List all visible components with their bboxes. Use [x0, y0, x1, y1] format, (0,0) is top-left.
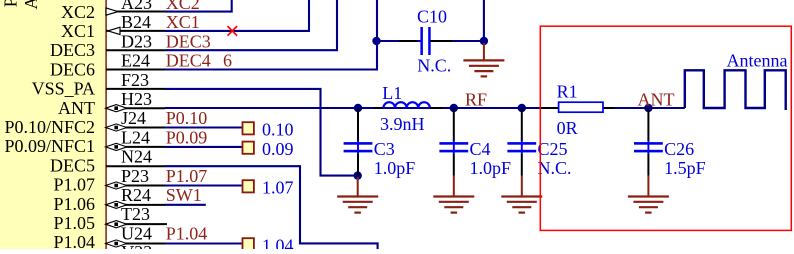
svg-text:E24: E24	[121, 51, 150, 71]
svg-text:ANT: ANT	[58, 98, 95, 118]
svg-text:B24: B24	[121, 12, 151, 32]
pin L24 bidirectional marker	[106, 143, 127, 150]
wire R1 output to antenna	[615, 107, 685, 109]
svg-text:C3: C3	[374, 139, 395, 159]
pin L24 (P0.09/NFC1) stub	[106, 146, 165, 148]
pin A23 (XC2) stub	[106, 11, 165, 13]
pin U24 (P1.04) stub	[106, 243, 165, 245]
svg-text:3.9nH: 3.9nH	[380, 114, 425, 134]
resistor R1	[540, 107, 559, 109]
svg-text:RF: RF	[465, 90, 487, 110]
svg-text:6: 6	[223, 51, 232, 71]
svg-text:N24: N24	[121, 147, 152, 167]
antenna symbol	[685, 70, 786, 110]
pin P23 (P1.07) stub	[106, 185, 165, 187]
svg-text:D23: D23	[121, 31, 152, 51]
ground below C25	[521, 176, 523, 197]
junction C10/gnd	[480, 37, 488, 45]
wire riser above C10 ground node	[483, 0, 485, 41]
wire ANT main RF line	[165, 107, 540, 109]
pin J24 bidirectional marker	[106, 124, 127, 131]
wire VSS_PA: F23 down to C3 bottom node	[165, 89, 358, 176]
wire P1.07 to port	[165, 184, 242, 186]
svg-text:DEC3: DEC3	[166, 31, 211, 51]
svg-text:P1.04: P1.04	[53, 232, 95, 249]
pin R24 (P1.06) stub	[106, 204, 165, 206]
svg-text:L24: L24	[121, 127, 150, 147]
svg-text:1.0pF: 1.0pF	[374, 158, 416, 178]
svg-text:P0.10/NFC2: P0.10/NFC2	[4, 117, 95, 137]
svg-text:C25: C25	[538, 139, 568, 159]
svg-text:DEC5: DEC5	[50, 155, 95, 175]
svg-text:V23: V23	[121, 242, 152, 249]
pin N24 (DEC5) stub	[106, 165, 165, 167]
IC U1 body (left block)	[0, 0, 105, 249]
pin E24 (DEC6) stub	[106, 69, 165, 71]
svg-text:P0.10: P0.10	[166, 108, 208, 128]
svg-text:A23: A23	[121, 0, 152, 13]
pin B24 input arrow	[108, 27, 120, 34]
svg-text:XC1: XC1	[166, 12, 200, 32]
svg-text:P0.09: P0.09	[166, 127, 208, 147]
junction C3	[354, 104, 362, 112]
pin H23 (ANT) stub	[106, 107, 165, 109]
wire XC2: A23 to vertical riser	[165, 0, 232, 12]
svg-text:N.C.: N.C.	[538, 158, 572, 178]
svg-text:Antenna: Antenna	[727, 51, 788, 71]
ground below C3	[357, 177, 359, 197]
pin R24 bidirectional marker	[106, 201, 127, 208]
svg-text:L1: L1	[382, 83, 402, 103]
pin J24 (P0.10/NFC2) stub	[106, 127, 165, 129]
pin U24 bidirectional marker	[106, 240, 127, 247]
wire C10 right to ground node	[451, 40, 484, 42]
pin T23 bidirectional marker	[106, 221, 127, 228]
svg-text:P1.07: P1.07	[53, 175, 95, 195]
svg-text:P1.06: P1.06	[53, 194, 95, 214]
junction ANT	[644, 104, 652, 112]
svg-text:P: P	[0, 0, 20, 7]
svg-text:0.10: 0.10	[262, 119, 294, 139]
capacitor C10	[399, 40, 421, 42]
svg-text:A: A	[21, 0, 41, 10]
port 0.09	[243, 142, 254, 154]
pin B24 (XC1) stub	[106, 30, 165, 32]
svg-text:U24: U24	[121, 223, 152, 243]
red highlight box around antenna matching	[540, 26, 791, 230]
wire P0.10 to port	[165, 126, 242, 128]
port 1.04	[243, 238, 254, 250]
capacitor C25	[521, 108, 523, 141]
svg-text:1.07: 1.07	[262, 177, 294, 197]
svg-text:1.04: 1.04	[262, 235, 294, 249]
wire DEC6: E24 to vertical riser through C10 node	[165, 0, 377, 70]
capacitor C26	[647, 108, 649, 141]
wire DEC3: D23 to vertical riser	[165, 0, 337, 50]
junction C10/DEC6	[372, 37, 380, 45]
svg-text:1.5pF: 1.5pF	[664, 158, 706, 178]
junction RF	[450, 104, 458, 112]
svg-text:C10: C10	[417, 7, 447, 27]
svg-text:P0.09/NFC1: P0.09/NFC1	[4, 136, 95, 156]
svg-text:J24: J24	[121, 108, 146, 128]
junction C3 bottom	[354, 171, 362, 179]
svg-text:0R: 0R	[557, 118, 578, 138]
ground below C4	[453, 176, 455, 197]
svg-text:DEC6: DEC6	[50, 59, 95, 79]
svg-text:T23: T23	[121, 204, 150, 224]
svg-text:SW1: SW1	[166, 185, 202, 205]
wire C10 left	[377, 40, 399, 42]
pin D23 (DEC3) stub	[106, 49, 165, 51]
svg-text:P1.07: P1.07	[166, 166, 208, 186]
svg-text:VSS_PA: VSS_PA	[32, 79, 95, 99]
pin T23 (P1.05) stub	[106, 223, 167, 225]
port 1.07	[243, 180, 254, 192]
svg-text:N.C.: N.C.	[417, 56, 451, 76]
svg-text:DEC4: DEC4	[166, 51, 211, 71]
svg-text:H23: H23	[121, 89, 152, 109]
no-ERC red cross on XC1 wire	[228, 26, 238, 36]
svg-text:F23: F23	[121, 70, 149, 90]
pin F23 (VSS_PA) stub	[106, 88, 165, 90]
svg-text:ANT: ANT	[638, 89, 675, 109]
junction C25	[518, 104, 526, 112]
svg-text:XC1: XC1	[61, 21, 95, 41]
capacitor C4	[453, 108, 455, 141]
ground right of C10	[483, 43, 485, 60]
pin A23 output arrow	[106, 8, 118, 15]
svg-text:0.09: 0.09	[262, 139, 294, 159]
wire DEC5 route down and right	[165, 166, 378, 249]
ground below C26	[647, 176, 649, 197]
svg-text:C4: C4	[470, 139, 491, 159]
svg-text:R1: R1	[557, 82, 578, 102]
svg-text:P1.05: P1.05	[53, 213, 95, 233]
inductor L1	[374, 107, 383, 109]
pin P23 bidirectional marker	[106, 182, 127, 189]
capacitor C3	[357, 108, 359, 141]
svg-text:XC2: XC2	[61, 2, 95, 22]
port 0.10	[243, 122, 254, 134]
svg-text:1.0pF: 1.0pF	[470, 158, 512, 178]
svg-text:R24: R24	[121, 185, 151, 205]
wire XC1: B24 to vertical riser	[165, 0, 309, 31]
svg-text:C26: C26	[664, 139, 694, 159]
svg-text:DEC3: DEC3	[50, 40, 95, 60]
pin H23 bidirectional marker	[106, 105, 127, 112]
wire P1.04 to port	[165, 242, 242, 244]
svg-text:P23: P23	[121, 166, 149, 186]
wire SW1 stub	[165, 204, 206, 206]
svg-text:P1.04: P1.04	[166, 223, 208, 243]
wire P0.09 to port	[165, 146, 242, 148]
